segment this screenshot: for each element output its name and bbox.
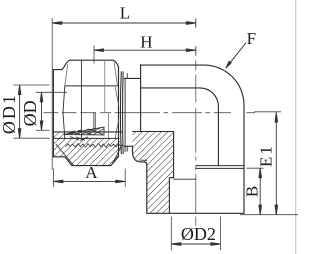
svg-text:ØD: ØD: [20, 100, 40, 126]
svg-text:ØD1: ØD1: [0, 93, 19, 134]
svg-text:L: L: [120, 4, 130, 23]
svg-text:A: A: [85, 163, 98, 182]
svg-text:F: F: [247, 29, 256, 48]
svg-text:B: B: [242, 186, 261, 197]
svg-text:E1: E1: [256, 144, 275, 167]
svg-text:ØD2: ØD2: [181, 224, 216, 244]
svg-text:H: H: [140, 33, 152, 52]
